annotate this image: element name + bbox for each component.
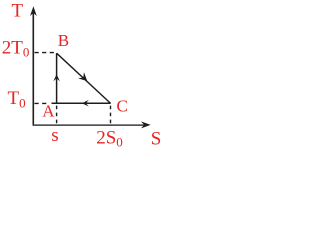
- dashed line C down to 2S0: [110, 106, 112, 126]
- arrow on A-B (up): [53, 74, 60, 81]
- arrow on B-C (down-right): [78, 72, 87, 81]
- dashed line T0 to A: [35, 102, 48, 104]
- svg-text:S: S: [151, 128, 162, 149]
- S axis: [33, 124, 145, 126]
- svg-text:B: B: [58, 31, 69, 50]
- T axis arrowhead: [30, 6, 37, 16]
- process line A to B: [56, 53, 58, 103]
- dashed line A down to s: [56, 106, 58, 126]
- dashed line 2T0 to B: [35, 52, 56, 54]
- svg-text:s: s: [51, 125, 58, 146]
- svg-text:T: T: [12, 0, 24, 21]
- process line B to C: [57, 53, 111, 103]
- arrow on C-A (left): [82, 100, 89, 107]
- svg-text:A: A: [42, 101, 55, 120]
- process line C to A: [52, 102, 111, 104]
- svg-text:C: C: [117, 97, 128, 116]
- S axis arrowhead: [141, 121, 151, 128]
- T axis: [32, 13, 34, 126]
